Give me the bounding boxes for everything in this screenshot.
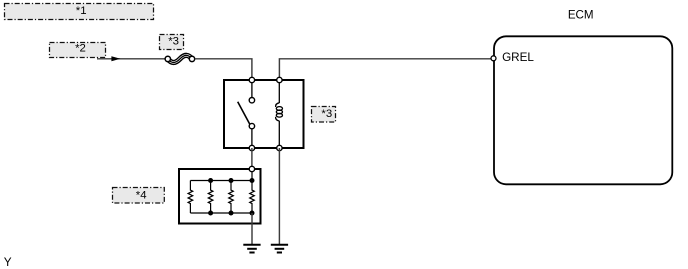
svg-text:*3: *3 [168, 35, 179, 47]
svg-text:ECM: ECM [568, 8, 594, 21]
relay coil L [276, 80, 283, 148]
wire relay bottom-left down to resistor pack [251, 148, 253, 166]
wire relay top-right to ECM GREL [279, 59, 491, 78]
wire from *2 to fuse [97, 58, 166, 60]
resistor R2 [208, 181, 213, 214]
svg-text:*2: *2 [75, 43, 86, 55]
resistor pack terminal [249, 166, 254, 171]
label box *1 [5, 4, 154, 20]
wire resistor pack to ground [251, 213, 253, 245]
junction dots top bus [208, 178, 213, 183]
relay terminal bottom-right [277, 145, 282, 150]
junction dots bottom bus [208, 211, 213, 216]
relay switch blade [238, 102, 250, 124]
relay box [224, 80, 304, 148]
svg-text:*1: *1 [76, 5, 87, 17]
label box *3 (fuse) [160, 35, 184, 50]
label box *2 [50, 43, 106, 58]
relay terminal bottom-left [249, 145, 254, 150]
fuse F [165, 55, 195, 62]
relay terminal top-left [249, 77, 254, 82]
svg-text:*4: *4 [136, 190, 147, 202]
switch contact upper [249, 98, 254, 103]
ground 2 [271, 245, 288, 253]
arrowhead [111, 56, 120, 61]
switch contact lower [249, 123, 254, 128]
svg-text:Y: Y [4, 255, 12, 269]
relay switch wire stubs [251, 80, 253, 98]
label box *4 [113, 188, 165, 204]
resistor R3 [229, 181, 234, 214]
top bus [190, 180, 252, 182]
label box *3 (relay) [312, 107, 336, 123]
ground 1 [243, 245, 260, 253]
svg-text:*3: *3 [321, 108, 332, 120]
bottom bus [190, 212, 252, 214]
wire relay coil to ground [278, 148, 280, 245]
resistor R1 [188, 181, 193, 214]
pin GREL terminal [491, 56, 496, 61]
ECM box U1 [494, 36, 672, 184]
svg-text:GREL: GREL [502, 51, 534, 64]
relay terminal top-right [277, 77, 282, 82]
resistor pack box [179, 169, 261, 224]
wire fuse to relay top-left [195, 59, 252, 78]
resistor R4 [250, 172, 255, 213]
